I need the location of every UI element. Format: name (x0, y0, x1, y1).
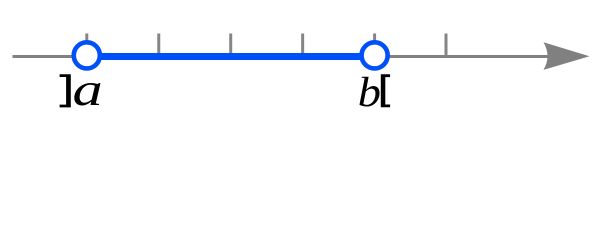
tick 4 (301, 34, 304, 57)
axis line (13, 55, 561, 58)
tick at b (373, 34, 376, 57)
svg-text:a: a (73, 64, 103, 116)
tick 3 (229, 34, 232, 57)
tick 6 (445, 34, 448, 57)
svg-text:b: b (358, 68, 381, 116)
open endpoint a (74, 42, 100, 68)
label bracket [ of b (381, 74, 390, 107)
tick at a (85, 34, 88, 57)
label bracket ] of a (60, 74, 71, 107)
arrowhead (544, 42, 590, 70)
open endpoint b (362, 42, 388, 68)
interval segment (a,b) (87, 53, 375, 60)
tick 2 (157, 34, 160, 57)
